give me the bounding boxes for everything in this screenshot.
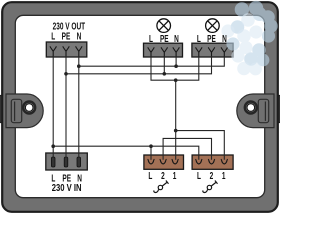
watermark dot cluster — [226, 1, 277, 67]
svg-text:L: L — [149, 33, 153, 45]
left screw hole — [23, 102, 35, 114]
svg-text:L: L — [51, 30, 55, 42]
svg-text:2: 2 — [161, 169, 165, 181]
svg-text:2: 2 — [210, 169, 214, 181]
svg-text:L: L — [197, 33, 201, 45]
switch S1 symbol (middle) — [154, 181, 169, 193]
wire lamp feed drop — [175, 80, 177, 130]
clamp N — [76, 46, 82, 57]
wire L vertical (IN to OUT) — [52, 56, 54, 158]
enclosure outer frame — [2, 2, 278, 212]
switch terminal block X6 (bottom right, brown) — [192, 155, 233, 169]
wire switched line to S2 terminal 1 — [176, 131, 225, 160]
wire N stub to lamp1 — [175, 56, 177, 66]
junction dots — [51, 64, 178, 148]
svg-text:N: N — [222, 33, 227, 45]
wire L feed to switches — [53, 146, 199, 160]
wire PE vertical (IN to OUT) — [65, 56, 67, 158]
left mounting flange stub — [0, 96, 7, 123]
svg-text:L: L — [197, 169, 201, 181]
right screw hole — [245, 102, 257, 114]
clamp PE — [63, 46, 69, 57]
lamp E2 (right) — [206, 19, 220, 33]
svg-text:1: 1 — [173, 169, 177, 181]
lamp E1 (middle) — [157, 19, 171, 33]
wires — [53, 56, 224, 160]
switch S2 symbol (right) — [203, 181, 218, 193]
right tab bracket — [258, 99, 268, 122]
wire lamp L tie — [151, 56, 199, 80]
svg-text:230 V IN: 230 V IN — [52, 182, 82, 193]
wire PE stub to lamp1 — [163, 56, 165, 74]
terminal block X3 lamp 2 (top right) — [192, 43, 233, 57]
svg-text:PE: PE — [62, 30, 71, 42]
terminal block X1 230V OUT (top left) — [46, 42, 87, 57]
wire PE distribution — [66, 56, 212, 74]
clamp L — [50, 46, 56, 57]
left mounting tab plate — [6, 94, 43, 128]
wire L stub to S1 — [150, 146, 152, 160]
terminal block X2 lamp 1 (top middle) — [144, 43, 183, 57]
svg-text:N: N — [174, 33, 179, 45]
wire switched line to S1 terminal 1 — [175, 131, 177, 160]
right mounting flange stub — [273, 96, 280, 123]
left tab bracket — [11, 99, 21, 122]
svg-text:PE: PE — [160, 33, 169, 45]
svg-text:1: 1 — [222, 169, 226, 181]
wire N distribution — [79, 56, 225, 66]
switch terminal block X5 (bottom middle, brown) — [144, 155, 184, 169]
wire N vertical (IN to OUT) — [78, 56, 80, 158]
svg-text:PE: PE — [207, 33, 216, 45]
enclosure inner opening — [15, 15, 264, 197]
wire traveller 2-2 — [163, 138, 211, 159]
svg-text:N: N — [77, 30, 82, 42]
terminal block X4 230V IN (bottom left) — [46, 153, 88, 170]
svg-text:L: L — [148, 169, 152, 181]
right mounting tab plate — [237, 94, 274, 128]
